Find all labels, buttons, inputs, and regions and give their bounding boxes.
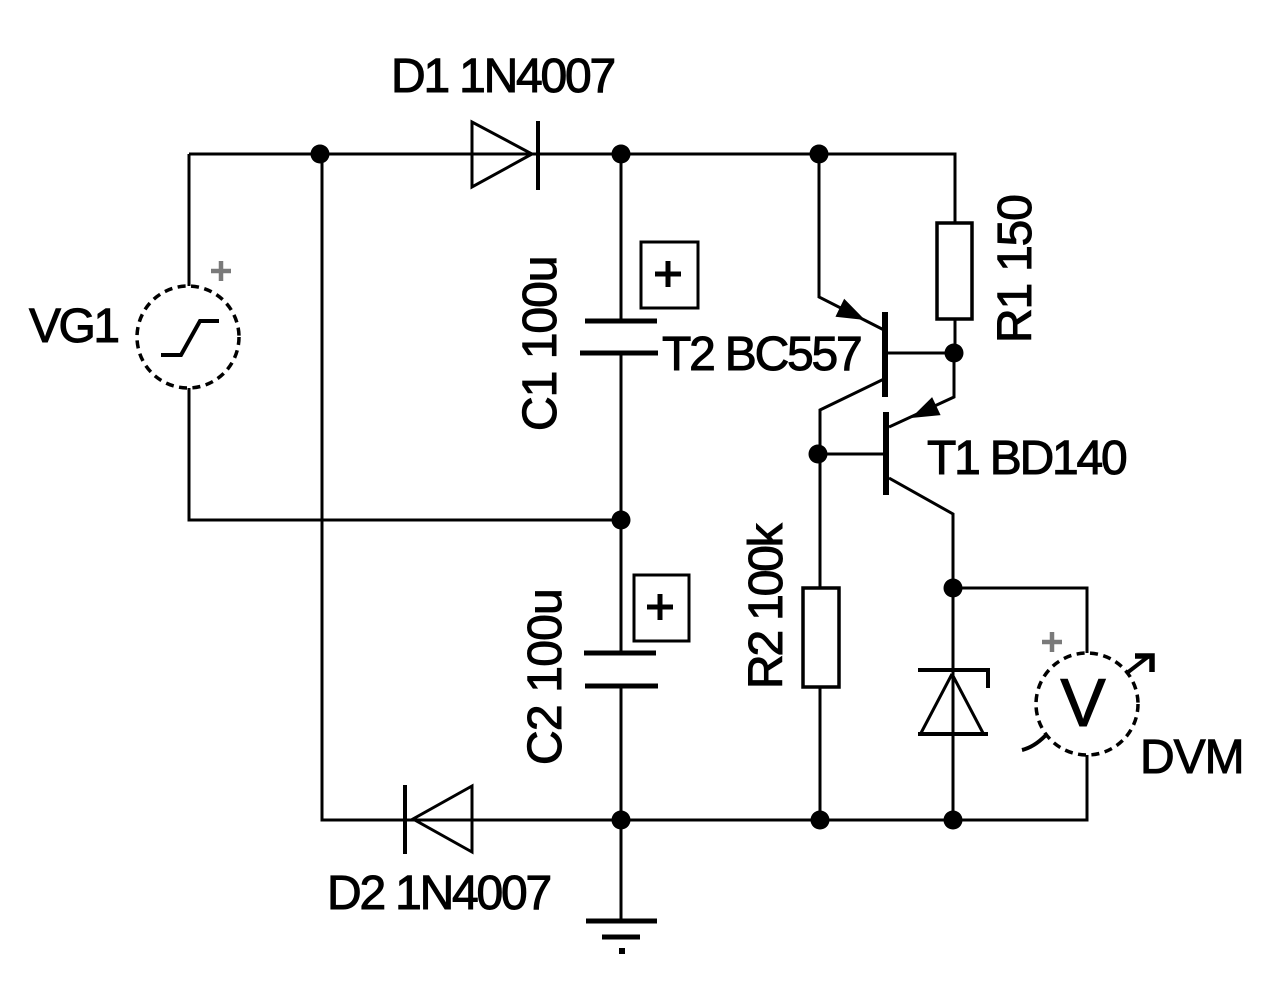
- diode D2: [405, 785, 472, 854]
- wire C1 bottom lead: [620, 353, 623, 520]
- ground: [586, 921, 657, 954]
- wire T1 base: [818, 453, 884, 456]
- svg-text:D1 1N4007: D1 1N4007: [391, 50, 615, 103]
- capacitor C2: [584, 575, 689, 686]
- source VG1: [137, 286, 239, 388]
- polarity plus DVM: [1042, 632, 1062, 652]
- transistor T1 emitter arrow: [907, 397, 941, 427]
- transistor T2 emitter arrow: [835, 299, 869, 329]
- node C: [810, 145, 829, 164]
- wire T2 collector to node H: [820, 379, 884, 454]
- wire T1 collector to node J: [889, 478, 953, 588]
- wire top rail: [189, 154, 955, 223]
- wire R2 top lead: [819, 454, 822, 588]
- transistor T2 bar: [882, 312, 888, 397]
- voltmeter DVM: [1022, 653, 1152, 755]
- wire bottom rail to DVM: [621, 754, 1087, 820]
- wire R1 bottom lead: [954, 319, 957, 353]
- svg-text:VG1: VG1: [29, 300, 118, 353]
- svg-text:T1 BD140: T1 BD140: [927, 432, 1126, 485]
- polarity plus VG1: [211, 261, 231, 281]
- node H: [809, 445, 828, 464]
- wire T1 emitter: [889, 353, 954, 427]
- wire C2 top lead: [620, 520, 623, 653]
- wire VG1 top lead: [188, 154, 191, 286]
- svg-text:C2 100u: C2 100u: [519, 589, 572, 765]
- node I: [945, 344, 964, 363]
- svg-text:D2 1N4007: D2 1N4007: [327, 867, 551, 920]
- node E: [612, 811, 631, 830]
- wire C2 bottom lead: [620, 687, 623, 820]
- transistor T1 bar: [883, 412, 889, 495]
- svg-text:DVM: DVM: [1140, 731, 1244, 784]
- wire T2 emitter: [819, 154, 884, 330]
- svg-text:V: V: [1060, 665, 1106, 741]
- svg-text:C1 100u: C1 100u: [514, 257, 567, 431]
- wire ground stub: [620, 820, 623, 921]
- node B: [612, 145, 631, 164]
- wire VG1 bottom lead to node D: [189, 388, 621, 520]
- diode D1: [472, 121, 538, 190]
- wire left drop x=322 to D2: [322, 154, 621, 820]
- node G: [944, 811, 963, 830]
- wire zener lead (passes through symbol): [952, 588, 955, 820]
- node D: [612, 511, 631, 530]
- wire T2 base to node I: [887, 352, 954, 355]
- wire C1 top lead: [620, 154, 623, 321]
- svg-text:T2 BC557: T2 BC557: [662, 328, 861, 381]
- node F: [811, 811, 830, 830]
- resistor R2: [803, 588, 839, 687]
- svg-text:R1 150: R1 150: [989, 195, 1042, 343]
- wire R2 bottom lead: [819, 687, 822, 820]
- capacitor C1: [580, 242, 698, 353]
- zener diode: [918, 670, 988, 734]
- resistor R1: [937, 223, 972, 319]
- svg-text:R2 100k: R2 100k: [740, 522, 793, 689]
- wire node J to DVM top: [953, 588, 1087, 653]
- node J: [944, 579, 963, 598]
- node A: [311, 145, 330, 164]
